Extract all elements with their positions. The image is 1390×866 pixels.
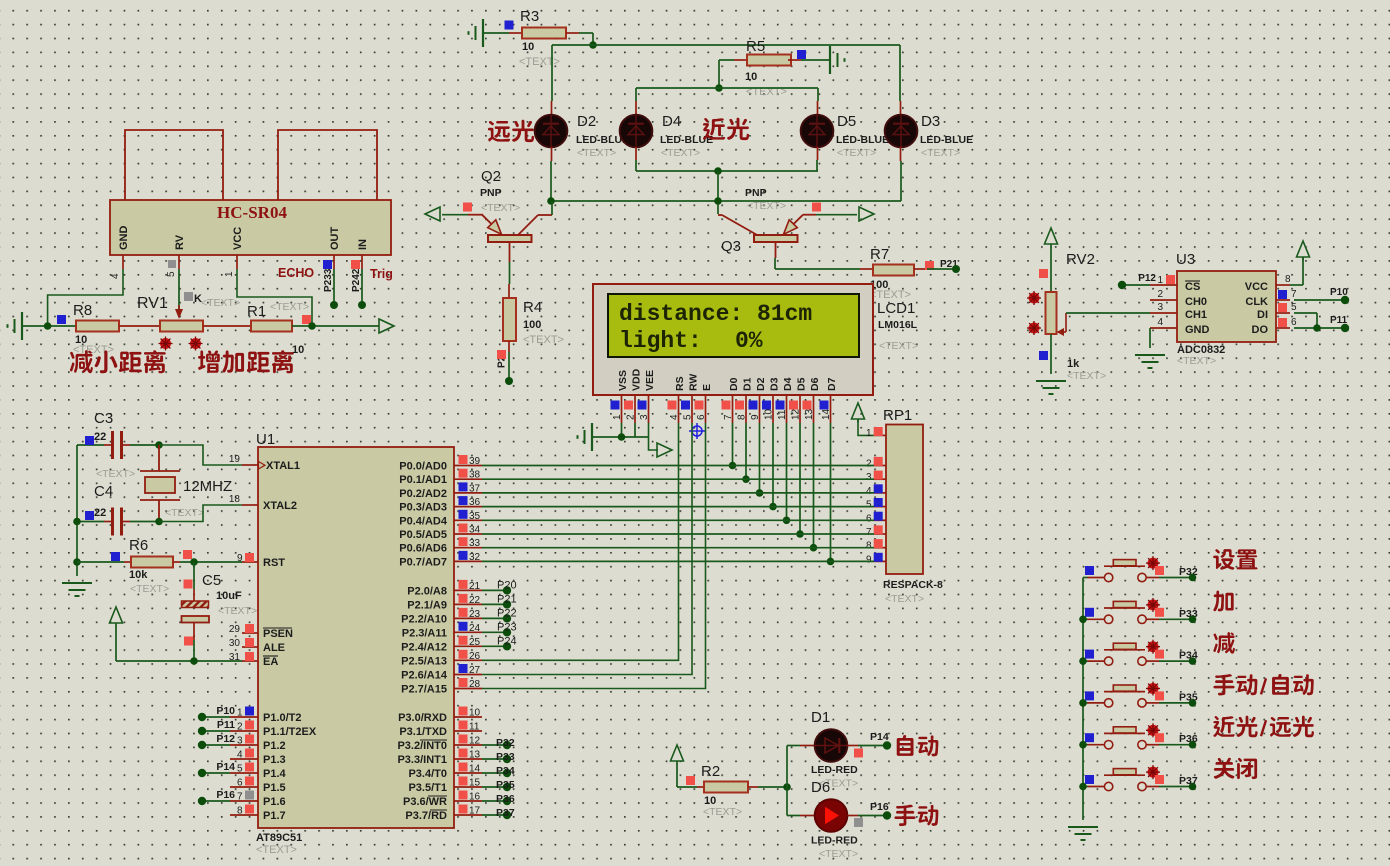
pin 38 P0.1/AD1 <box>399 469 482 487</box>
wire net P37 <box>482 814 507 816</box>
svg-text:PNP: PNP <box>745 187 767 199</box>
LED D6 (LED-RED, lit) <box>811 779 858 860</box>
svg-text:P1.3: P1.3 <box>263 754 286 766</box>
svg-text:DI: DI <box>1257 309 1268 321</box>
probe square (R8 left, blue) <box>57 315 66 324</box>
RV2 wiper <box>1057 313 1067 336</box>
resistor R5 <box>734 38 801 98</box>
svg-text:P37: P37 <box>496 807 515 819</box>
ground (RV2) <box>1036 380 1066 382</box>
svg-text:2: 2 <box>866 459 872 470</box>
svg-text:4: 4 <box>669 414 680 420</box>
pin 26 P2.5/A13 <box>401 650 482 668</box>
LCD pin 12 stub <box>789 395 802 423</box>
svg-text:P16: P16 <box>870 801 889 813</box>
svg-text:7: 7 <box>723 414 734 420</box>
resistor R4 (100) <box>503 284 564 352</box>
svg-text:Trig: Trig <box>370 267 393 281</box>
svg-text:9: 9 <box>866 554 872 565</box>
svg-text:LED-BLUE: LED-BLUE <box>836 134 889 146</box>
wire LCD pin3 (VEE) to terminal <box>649 423 659 450</box>
RV1 increase knob <box>190 338 201 349</box>
svg-text:P2.2/A10: P2.2/A10 <box>401 613 447 625</box>
pin 11 P3.1/TXD <box>399 721 482 739</box>
svg-text:22: 22 <box>94 507 106 519</box>
button SW5 symbol <box>1083 723 1193 749</box>
origin marker (blue crosshair) <box>689 423 705 439</box>
svg-text:P0.6/AD6: P0.6/AD6 <box>399 543 447 555</box>
svg-text:P20: P20 <box>497 579 517 591</box>
svg-text:P0.5/AD5: P0.5/AD5 <box>399 529 447 541</box>
pin 7 P1.6 <box>230 791 286 809</box>
svg-text:11: 11 <box>469 722 480 733</box>
svg-text:Q3: Q3 <box>721 238 741 255</box>
wire XTAL1 node <box>159 445 242 465</box>
resistor R8 (10) <box>73 302 119 356</box>
pin 23 P2.2/A10 <box>401 608 482 626</box>
pin 13 P3.3/INT1 <box>397 749 482 767</box>
svg-text:P16: P16 <box>216 789 235 801</box>
node junction (194,661) <box>190 657 198 665</box>
svg-text:0%: 0% <box>735 328 763 354</box>
node junction D3/P0.3 <box>769 503 777 511</box>
svg-text:8: 8 <box>237 806 243 817</box>
wire net P32 <box>482 744 507 746</box>
probe square (P32 btn, red) <box>1155 566 1164 575</box>
svg-text:P0.0/AD0: P0.0/AD0 <box>399 461 447 473</box>
pin 36 P0.3/AD3 <box>399 496 482 513</box>
pin 1 stub (VCC) <box>224 255 237 277</box>
svg-text:35: 35 <box>469 511 481 522</box>
svg-text:19: 19 <box>229 454 241 465</box>
node terminal dot (P10) <box>198 713 206 721</box>
svg-text:R2: R2 <box>701 763 720 780</box>
pin 22 P2.1/A9 <box>407 594 482 612</box>
probe square (R5 right, blue) <box>797 50 806 59</box>
svg-text:P3.3/INT1: P3.3/INT1 <box>397 754 447 766</box>
node junction (194,562) <box>190 558 198 566</box>
ADC U3 ADC0832 body <box>1177 271 1276 342</box>
svg-text:R8: R8 <box>73 302 92 319</box>
wire RV pin to RV1 wiper <box>178 269 180 309</box>
node junction (bus row 4) <box>1079 699 1087 707</box>
wire emitter rail Q2-Q3 <box>551 200 901 202</box>
node terminal dot (P23) <box>503 628 511 636</box>
svg-text:P3.1/TXD: P3.1/TXD <box>399 726 447 738</box>
svg-text:ALE: ALE <box>263 642 285 654</box>
node terminal dot (P33) <box>1189 616 1197 624</box>
RP1 pin 2 <box>866 457 886 470</box>
pin 31 EA <box>229 652 278 668</box>
wire LCD pin2 down <box>634 423 636 437</box>
svg-text:<TEXT>: <TEXT> <box>819 848 858 860</box>
resistor R2 (10) <box>697 763 758 818</box>
svg-text:D5: D5 <box>796 377 808 391</box>
svg-text:RV: RV <box>174 234 186 250</box>
wire XTAL2 node <box>159 505 242 522</box>
wire net P36 <box>482 800 507 802</box>
wire GND pin to pot rail <box>48 269 123 326</box>
LCD pin 1 stub <box>611 395 624 423</box>
node junction (719,88) <box>715 84 723 92</box>
node terminal dot (P33) <box>503 755 511 763</box>
svg-text:P1.1/T2EX: P1.1/T2EX <box>263 726 317 738</box>
svg-text:38: 38 <box>469 470 481 481</box>
LCD pin 6 stub <box>695 395 708 423</box>
svg-text:P1.5: P1.5 <box>263 782 286 794</box>
svg-text:CH0: CH0 <box>1185 296 1207 308</box>
svg-text:VEE: VEE <box>644 370 656 391</box>
svg-text:12MHZ: 12MHZ <box>183 478 232 495</box>
wire net P10 <box>202 716 230 718</box>
wire P0.4/AD4 bus <box>482 519 874 521</box>
pin 7 CLK wire <box>1276 289 1345 300</box>
svg-text:10: 10 <box>469 708 481 719</box>
wire net P33 <box>482 758 507 760</box>
svg-text:LED-RED: LED-RED <box>811 835 858 847</box>
svg-text:VSS: VSS <box>617 370 629 391</box>
probe square (P37 btn, red) <box>1155 775 1164 784</box>
pin 2 P1.1/T2EX <box>230 721 317 739</box>
svg-text:P2.4/A12: P2.4/A12 <box>401 641 447 653</box>
wire EA/VCC <box>116 626 242 661</box>
button SW4 symbol <box>1083 682 1193 708</box>
svg-text:23: 23 <box>469 609 481 620</box>
svg-text:8: 8 <box>866 541 872 552</box>
pin 35 P0.4/AD4 <box>399 510 482 528</box>
svg-text:<TEXT>: <TEXT> <box>256 844 297 856</box>
wire left rail (XTAL/gnd) <box>76 445 78 576</box>
wire LCD D2 column down <box>759 423 761 493</box>
resistor R7 (100) <box>860 246 927 301</box>
LCD pin 8 stub <box>735 395 748 423</box>
svg-text:U1: U1 <box>256 431 275 448</box>
svg-text:7: 7 <box>866 527 872 538</box>
svg-text:P1.0/T2: P1.0/T2 <box>263 712 302 724</box>
svg-text:LCD1: LCD1 <box>877 300 915 317</box>
svg-text:HC-SR04: HC-SR04 <box>217 203 287 222</box>
node junction (718,171) <box>714 167 722 175</box>
svg-text:4: 4 <box>110 273 121 279</box>
probe square (P32 left, blue) <box>1085 566 1094 575</box>
resistor pack RP1 body <box>886 425 923 575</box>
svg-text:CS: CS <box>1185 281 1200 293</box>
svg-text:RW: RW <box>688 374 700 391</box>
svg-text:D2: D2 <box>755 377 767 391</box>
wire OUT dangling <box>333 269 335 305</box>
svg-text:3: 3 <box>639 414 650 420</box>
svg-text:<TEXT>: <TEXT> <box>130 583 169 595</box>
svg-text:5: 5 <box>683 414 694 420</box>
pin 3 P1.2 <box>230 735 286 753</box>
wire net P21 <box>482 603 507 605</box>
wire E column (P2.7) <box>482 423 706 689</box>
svg-text:D7: D7 <box>826 377 838 391</box>
svg-text:DO: DO <box>1252 324 1269 336</box>
svg-text:VDD: VDD <box>631 368 643 391</box>
svg-text:LED-BLUE: LED-BLUE <box>660 134 713 146</box>
node terminal dot (P14) <box>198 769 206 777</box>
pin 2 CH0 stub <box>1150 289 1177 300</box>
LCD pin 9 stub <box>749 395 762 423</box>
node junction (bus row 3) <box>1079 657 1087 665</box>
node terminal dot (P36) <box>1189 741 1197 749</box>
svg-text:PSEN: PSEN <box>263 628 293 640</box>
svg-text:10: 10 <box>764 408 775 420</box>
potentiometer RV2 body <box>1046 292 1057 334</box>
svg-text:IN: IN <box>357 239 369 250</box>
probe square (P36 left, blue) <box>1085 733 1094 742</box>
probe square (P37 left, blue) <box>1085 775 1094 784</box>
capacitor C4 (22pF) <box>77 483 159 536</box>
wire net P16 <box>202 800 230 802</box>
node junction (1317,328) <box>1313 324 1321 332</box>
terminal (range output, right) <box>379 319 394 333</box>
svg-text:21: 21 <box>469 581 481 592</box>
pin stub (IN) <box>361 255 363 269</box>
pin 14 P3.4/T0 <box>408 763 482 781</box>
wire D6 to P16 <box>847 815 887 817</box>
node junction (47.6,326) <box>44 322 52 330</box>
svg-text:P2.6/A14: P2.6/A14 <box>401 670 448 682</box>
svg-text:<TEXT>: <TEXT> <box>661 147 700 159</box>
svg-text:27: 27 <box>469 665 481 676</box>
RP1 pin 1 <box>866 427 886 439</box>
svg-text:5: 5 <box>166 271 177 277</box>
pin 3 CH1 wire <box>1066 302 1177 313</box>
wire LCD D6 column down <box>813 423 815 548</box>
svg-text:C5: C5 <box>202 572 221 589</box>
svg-text:P36: P36 <box>496 793 515 805</box>
probe square (Q2, red) <box>463 203 472 212</box>
wire D2 cathode down <box>550 147 553 201</box>
svg-text:<TEXT>: <TEXT> <box>1067 370 1106 382</box>
svg-text:4: 4 <box>237 750 243 761</box>
node terminal dot (P37) <box>1189 783 1197 791</box>
svg-text:R3: R3 <box>520 8 539 25</box>
wire net P35 <box>482 786 507 788</box>
svg-text:32: 32 <box>469 552 481 563</box>
pin 9 RST <box>237 553 285 569</box>
ultrasonic transducer R (outline) <box>278 130 377 200</box>
svg-text:P12: P12 <box>216 733 235 745</box>
crystal X1 12MHZ <box>140 445 232 522</box>
svg-text:13: 13 <box>469 750 481 761</box>
LCD1 LM016L body <box>593 284 873 395</box>
svg-text:3: 3 <box>237 736 243 747</box>
node terminal dot (P34) <box>503 769 511 777</box>
pin 4 stub (GND) <box>110 255 123 279</box>
LCD pin 4 stub <box>668 395 681 423</box>
terminal (Q3 emitter, right) <box>859 207 874 221</box>
svg-text:R1: R1 <box>247 303 266 320</box>
probe square (R1 right, red) <box>302 315 311 324</box>
svg-text:25: 25 <box>469 637 481 648</box>
wire P0.0/AD0 bus <box>482 465 874 467</box>
svg-text:39: 39 <box>469 456 481 467</box>
LCD pin 7 stub <box>722 395 735 423</box>
pin 34 P0.5/AD5 <box>399 524 482 542</box>
probe square (R2 left, red) <box>686 776 695 785</box>
wire R5 to rail2 <box>719 60 734 88</box>
svg-text:CH1: CH1 <box>1185 309 1207 321</box>
node terminal dot (P35) <box>1189 699 1197 707</box>
wire power to R2 <box>677 764 697 787</box>
potentiometer RV1 <box>137 292 240 332</box>
pin 1 P1.0/T2 <box>230 707 302 725</box>
svg-text:C3: C3 <box>94 410 113 427</box>
pin 24 P2.3/A11 <box>402 622 482 640</box>
pin 15 P3.5/T1 <box>408 777 482 795</box>
svg-text:P0.3/AD3: P0.3/AD3 <box>399 502 447 514</box>
ultrasonic transducer T (outline) <box>125 130 223 200</box>
svg-text:RV1: RV1 <box>137 295 168 312</box>
svg-text:VCC: VCC <box>1245 281 1268 293</box>
wire LED branch <box>787 746 814 816</box>
svg-text:34: 34 <box>469 525 481 536</box>
svg-text:22: 22 <box>94 431 106 443</box>
probe square (RV2 low, blue) <box>1039 351 1048 360</box>
wire rail D4-D5 top <box>636 88 818 115</box>
RV1 decrease knob <box>160 338 171 349</box>
svg-text:15: 15 <box>469 778 481 789</box>
svg-text:7: 7 <box>1291 289 1297 300</box>
wire LCD D7 column down <box>830 423 832 561</box>
label 手动 (manual) <box>894 805 938 826</box>
svg-text:P35: P35 <box>496 779 515 791</box>
svg-text:2: 2 <box>1157 289 1163 300</box>
node terminal dot (P24) <box>503 642 511 650</box>
svg-text:26: 26 <box>469 651 481 662</box>
node junction (718,201) <box>714 197 722 205</box>
node junction D2/P0.2 <box>756 489 764 497</box>
wire power to RP1 pin1 <box>858 419 874 435</box>
pin 33 P0.6/AD6 <box>399 537 482 555</box>
pin 5 P1.4 <box>230 763 287 781</box>
svg-text:<TEXT>: <TEXT> <box>577 147 616 159</box>
node terminal dot (887,745.5) <box>883 741 891 749</box>
LED D1 (LED-RED, off) <box>811 709 858 790</box>
label 设置 <box>1213 549 1257 570</box>
wire junction to Q3 <box>717 171 719 214</box>
wire net P20 <box>482 589 507 591</box>
probe square (R4 net, red) <box>497 350 506 359</box>
svg-text:<TEXT>: <TEXT> <box>837 147 876 159</box>
svg-text:36: 36 <box>469 497 481 508</box>
svg-text:RESPACK-8: RESPACK-8 <box>883 579 943 591</box>
node terminal dot (362,305) <box>358 301 366 309</box>
svg-text:U3: U3 <box>1176 251 1195 268</box>
wire RV1-R1 <box>203 325 251 327</box>
svg-text:<TEXT>: <TEXT> <box>218 605 257 617</box>
svg-text:RV2: RV2 <box>1066 251 1095 268</box>
svg-text:RST: RST <box>263 557 285 569</box>
svg-text:10uF: 10uF <box>216 590 242 602</box>
svg-text:D2: D2 <box>577 113 596 130</box>
svg-text:5: 5 <box>866 500 872 511</box>
svg-text:<TEXT>: <TEXT> <box>885 593 924 605</box>
power arrow (R2) <box>671 745 684 761</box>
LCD screen <box>608 294 859 357</box>
svg-text:RP1: RP1 <box>883 407 912 424</box>
svg-text:24: 24 <box>469 623 481 634</box>
probe square (D6, gray) <box>854 818 863 827</box>
probe square (P34 btn, red) <box>1155 650 1164 659</box>
node junction (bus row 5) <box>1079 741 1087 749</box>
svg-text:ECHO: ECHO <box>278 266 314 280</box>
svg-text:VCC: VCC <box>232 227 244 250</box>
svg-text:1k: 1k <box>1067 358 1080 370</box>
svg-text:10: 10 <box>292 344 304 356</box>
wire Q3 base to R7 <box>775 258 860 269</box>
RP1 pin 6 <box>866 512 886 525</box>
svg-text:GND: GND <box>118 226 130 251</box>
svg-text:2: 2 <box>626 414 637 420</box>
pin stub (OUT) <box>333 255 335 269</box>
svg-text:D5: D5 <box>837 113 856 130</box>
svg-text:D3: D3 <box>921 113 940 130</box>
probe square (RV2, red) <box>1039 269 1048 278</box>
wire net P11 <box>202 730 230 732</box>
probe square (R3 left, blue) <box>505 21 514 30</box>
LCD pin 13 stub <box>803 395 816 423</box>
svg-text:P10: P10 <box>216 705 235 717</box>
svg-text:LED-RED: LED-RED <box>811 764 858 776</box>
svg-text:D1: D1 <box>742 377 754 391</box>
ground (right of R5) <box>801 46 845 74</box>
pin name CS (overline) <box>1185 281 1200 293</box>
wire button bus <box>1082 578 1084 821</box>
svg-text:LED-BLUE: LED-BLUE <box>920 134 973 146</box>
transistor Q2 (PNP) <box>442 168 552 262</box>
svg-text:P34: P34 <box>496 765 515 777</box>
wire LCD D0 column down <box>732 423 734 466</box>
wire LCD D1 column down <box>745 423 747 479</box>
button SW6 symbol <box>1083 765 1193 791</box>
svg-text:P21: P21 <box>497 593 517 605</box>
svg-text:3: 3 <box>1157 302 1163 313</box>
ground (crystal rail) <box>62 582 92 584</box>
wire RS column (P2.5) <box>482 423 679 660</box>
svg-text:P2.5/A13: P2.5/A13 <box>401 655 447 667</box>
svg-text:4: 4 <box>866 486 872 497</box>
svg-text:12: 12 <box>791 408 802 420</box>
node terminal dot (1345,328) <box>1341 324 1349 332</box>
svg-text:RS: RS <box>674 376 686 391</box>
pin 16 P3.6/WR <box>403 791 482 809</box>
svg-text:P14: P14 <box>216 761 235 773</box>
node terminal dot (1345,300) <box>1341 296 1349 304</box>
wire Q2 base down <box>509 262 511 284</box>
svg-text:light:: light: <box>619 328 702 354</box>
wire LCD D5 column down <box>799 423 801 534</box>
node terminal dot (P11) <box>198 727 206 735</box>
resistor R3 <box>509 8 579 68</box>
svg-text:1: 1 <box>237 708 243 719</box>
probe square (OUT, blue) <box>323 260 332 269</box>
svg-text:GND: GND <box>1185 324 1210 336</box>
wire net P14 <box>202 772 230 774</box>
svg-text:E: E <box>701 384 713 391</box>
wire D1 to P14 <box>847 745 887 747</box>
label 加 <box>1213 590 1233 611</box>
LCD pin 14 stub <box>820 395 833 423</box>
svg-text:P22: P22 <box>497 607 517 619</box>
resistor R6 (10k) <box>77 537 242 595</box>
svg-text:P2.3/A11: P2.3/A11 <box>402 627 447 639</box>
svg-text:<TEXT>: <TEXT> <box>165 507 204 519</box>
label 减 <box>1213 632 1235 654</box>
